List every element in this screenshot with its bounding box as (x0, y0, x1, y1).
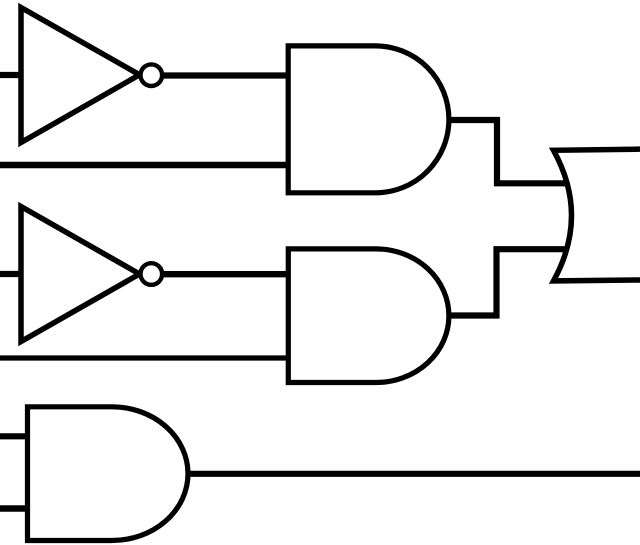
wire: AND U3 output to OR U6 input 1 (445, 120, 569, 183)
AND gate U4 (288, 249, 449, 383)
wire: input D to AND U4 input 2 (0, 355, 290, 360)
wire: input F to AND U5 input 2 (0, 505, 30, 511)
inverter U1 bubble (141, 64, 163, 86)
inverter U1 triangle (21, 8, 140, 143)
wire: AND U5 output (184, 471, 640, 477)
wire: inverter U1 output to AND U3 input 1 (150, 72, 290, 78)
inverter U2 triangle (21, 207, 140, 342)
wire: inverter U2 output to AND U4 input 1 (150, 271, 290, 277)
wire: AND U4 output to OR U6 input 2 (445, 249, 569, 315)
wire: input B to AND U3 input 2 (0, 162, 290, 168)
AND gate U5 (28, 407, 189, 541)
wire: input A to inverter U1 (0, 72, 23, 78)
wire: input C to inverter U2 (0, 271, 23, 277)
inverter U2 bubble (141, 263, 163, 285)
wire: input E to AND U5 input 1 (0, 433, 30, 439)
OR gate U6 (clipped at right edge) (554, 149, 640, 281)
AND gate U3 (288, 46, 449, 193)
